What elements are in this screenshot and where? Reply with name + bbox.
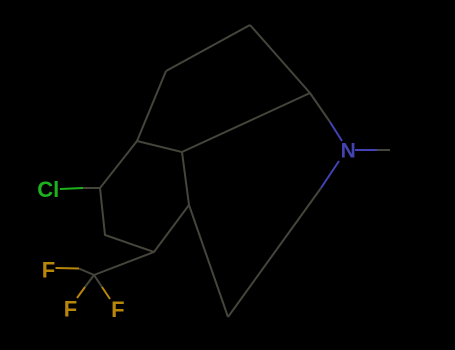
- tent apex right: [250, 25, 310, 93]
- lower chain left-down: [228, 213, 303, 317]
- svg-text:N: N: [341, 140, 356, 163]
- svg-text:F: F: [64, 297, 77, 322]
- wire Cl bond gray half: [83, 187, 100, 189]
- svg-text:F: F: [42, 258, 55, 283]
- bond X1-N gray half: [310, 93, 330, 122]
- wire C-F3 gray half: [94, 275, 102, 287]
- N methyl blue half: [355, 149, 377, 151]
- wire C-F2 gold half: [77, 287, 85, 298]
- wire C-F3 gold half: [102, 287, 110, 299]
- wire C-F1 gray half: [79, 269, 94, 276]
- N methyl gray half: [377, 149, 390, 151]
- svg-text:Cl: Cl: [37, 177, 59, 202]
- wire C-F1 gold half: [56, 267, 80, 270]
- bond X1-N blue half: [330, 122, 342, 141]
- benzene ring: [100, 141, 189, 252]
- long ylidene line: [182, 93, 310, 152]
- tent left leg: [137, 71, 166, 141]
- tent apex left: [166, 25, 250, 71]
- bond N-X2 blue half: [321, 161, 339, 188]
- bond N-X2 gray half: [303, 188, 321, 213]
- svg-text:F: F: [111, 297, 124, 322]
- lower chain up to ring: [189, 205, 228, 317]
- wire Cl bond green half: [60, 188, 83, 189]
- wire C-F2 gray half: [85, 275, 94, 287]
- wire CF3 to ring: [94, 252, 154, 275]
